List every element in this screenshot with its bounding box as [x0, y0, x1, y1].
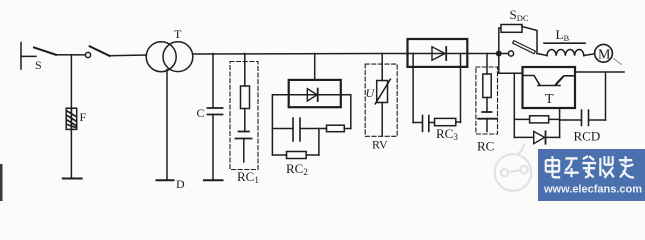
RCD diode branch [514, 136, 559, 138]
GTR box T [523, 67, 576, 108]
main line through box1 [408, 53, 468, 55]
inductor LB core bar [544, 42, 585, 44]
RC3 resistor [435, 118, 456, 125]
switch contact circle [85, 52, 90, 57]
RV top wire [381, 54, 383, 81]
varistor diagonal [375, 79, 390, 104]
svg-text:SDC: SDC [510, 7, 529, 23]
diode box 2 [289, 80, 341, 107]
svg-text:U: U [366, 86, 376, 100]
diode D2 line [289, 94, 341, 96]
stub right of motor [614, 59, 622, 65]
svg-text:M: M [598, 48, 611, 63]
wire main line left stub [21, 55, 36, 57]
terminal bar D [157, 179, 174, 181]
svg-text:T: T [545, 92, 554, 107]
RC3 wire right [456, 121, 461, 123]
RC resistor [483, 74, 491, 98]
capacitor mid branch [272, 118, 326, 141]
wire down to diode box 2 [314, 54, 316, 80]
wire to GTR box [499, 72, 523, 74]
svg-text:RC3: RC3 [436, 126, 458, 142]
svg-text:F: F [80, 110, 87, 124]
wire box1 to SDC junction [467, 53, 508, 55]
svg-text:RC: RC [477, 139, 494, 154]
wire left of box2 [272, 95, 288, 155]
junction down riser [498, 54, 500, 74]
left edge dark bar [0, 164, 3, 201]
fuse inner strokes [67, 108, 76, 129]
RCD left vertical [513, 73, 515, 137]
fuse lower wire [70, 129, 72, 178]
capacitor in RC1 [236, 132, 252, 139]
svg-text:S: S [35, 58, 42, 72]
svg-text:RC1: RC1 [237, 169, 259, 185]
RCD resistor [530, 116, 549, 123]
wire from S to fuse junction [56, 54, 85, 56]
resistor mid branch [327, 125, 345, 132]
SDC slant wire [522, 27, 537, 54]
RC1 mid wire [244, 109, 246, 132]
resistor RC2 [287, 152, 307, 159]
svg-text:www.elecfans.com: www.elecfans.com [543, 184, 642, 196]
RCD resistor branch [514, 118, 559, 120]
svg-text:RC2: RC2 [286, 161, 308, 177]
SDC resistor [501, 25, 522, 33]
RCD cap riser [605, 72, 607, 120]
diode D2 [307, 89, 317, 101]
node left terminal tick [20, 43, 22, 70]
svg-text:RCD: RCD [574, 129, 601, 144]
switch blade 2 [90, 46, 110, 56]
bottom branch wire [272, 154, 319, 156]
RC1 dashed box [230, 62, 258, 170]
RC dashed box [476, 67, 498, 134]
motor M circle [595, 44, 613, 62]
capacitor C branch wire [212, 54, 214, 180]
wire to transformer [110, 54, 147, 57]
fuse bottom terminal bar [63, 178, 82, 180]
top right return wire [575, 71, 624, 73]
watermark logo circle [495, 144, 532, 191]
RCD right vertical [559, 108, 561, 137]
RC lower wire [486, 119, 488, 132]
box1 inner drop right [460, 54, 462, 123]
transistor path inside [523, 76, 576, 86]
capacitor C plates [208, 108, 223, 115]
terminal bar under C [204, 179, 223, 181]
wire mid to right vert [344, 128, 351, 130]
RV lower wire [381, 103, 383, 137]
RC1 lower wire [243, 139, 245, 163]
RCD diode [534, 131, 545, 143]
resistor in RC1 [241, 86, 250, 109]
transformer T secondary circle [163, 42, 193, 72]
wire right of box2 [341, 95, 351, 129]
SDC contact circle [508, 51, 513, 56]
RV dashed box [365, 64, 397, 136]
svg-text:C: C [197, 106, 205, 120]
svg-text:T: T [174, 27, 182, 41]
varistor body [377, 81, 388, 103]
transformer bottom wire to D [166, 70, 168, 180]
watermark blue box [538, 149, 645, 201]
SDC riser [499, 28, 501, 54]
fuse branch wire down [70, 55, 72, 108]
RC1 top wire [244, 54, 246, 87]
switch S blade [34, 48, 56, 55]
watermark CJK glyph strokes [546, 156, 634, 178]
RC capacitor [478, 112, 496, 119]
SDC blade [515, 43, 534, 52]
fuse F body [66, 108, 77, 129]
svg-text:RV: RV [372, 138, 388, 152]
wire transformer to C branch [193, 53, 408, 56]
RCD capacitor branch [560, 110, 606, 126]
svg-text:LB: LB [556, 27, 570, 43]
diode D1 [432, 47, 445, 60]
svg-text:D: D [176, 177, 185, 191]
RC3 capacitor [413, 116, 434, 132]
emitter arrow [556, 77, 563, 85]
wire mid-branch drop [318, 129, 320, 156]
wire to motor [584, 54, 595, 56]
diode box 1 [408, 39, 468, 67]
wire to inductor [537, 54, 547, 56]
transformer T primary circle [146, 42, 176, 72]
junction dot [497, 51, 501, 55]
inductor LB coil [547, 49, 584, 55]
RC top wire [486, 54, 488, 75]
box1 inner drop left [412, 54, 414, 123]
RC mid wire [486, 98, 488, 113]
